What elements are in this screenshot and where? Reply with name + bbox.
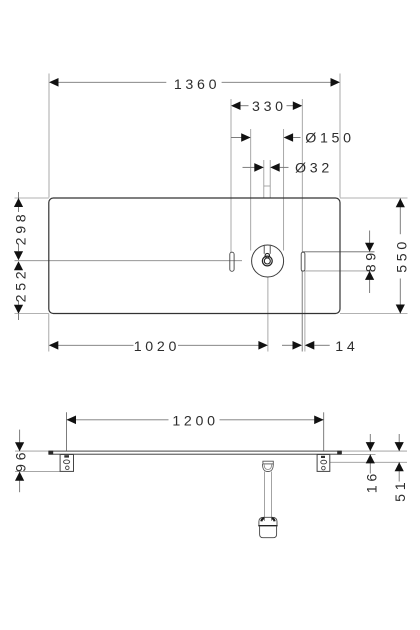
- svg-text:1020: 1020: [134, 339, 180, 355]
- svg-text:16: 16: [365, 470, 381, 493]
- svg-text:Ø32: Ø32: [295, 161, 333, 177]
- svg-text:1200: 1200: [172, 413, 218, 429]
- svg-text:330: 330: [252, 99, 287, 115]
- svg-text:1360: 1360: [174, 77, 220, 93]
- svg-text:550: 550: [394, 238, 410, 273]
- svg-text:14: 14: [335, 339, 358, 355]
- svg-text:96: 96: [14, 449, 30, 472]
- svg-text:298: 298: [13, 211, 29, 246]
- svg-text:89: 89: [363, 249, 379, 272]
- svg-text:Ø150: Ø150: [305, 131, 355, 147]
- svg-text:252: 252: [13, 268, 29, 303]
- svg-text:51: 51: [393, 479, 409, 502]
